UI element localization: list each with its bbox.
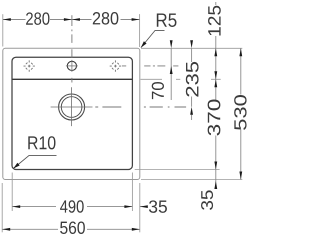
dim col A (70) x=171.2 xyxy=(170,48,172,100)
vertical tap centerline xyxy=(71,15,73,58)
horizontal tap centerline extension xyxy=(122,65,178,67)
dim col C (125/370/35) x=215.8 xyxy=(215,2,217,5)
label 530 rotated xyxy=(234,95,246,130)
bottom dim extension lines xyxy=(1,183,3,232)
bottom dim row 560 y=228.1 xyxy=(2,228,58,230)
bottom dim row 490/35 y=206.6 xyxy=(12,206,56,208)
drain inner circle xyxy=(61,97,82,118)
faucet hole xyxy=(67,61,76,70)
R5 leader xyxy=(141,30,165,47)
label 70 rotated xyxy=(152,82,164,99)
label 35 rotated xyxy=(201,190,213,209)
sink inner opening rect xyxy=(12,57,132,169)
sink outer rect 560x530 xyxy=(3,48,140,179)
dim col D (530) x=240.3 xyxy=(240,48,242,94)
label R10 xyxy=(28,136,55,149)
extension line: bowl bottom to right xyxy=(135,169,220,171)
extension line: sink bottom to right xyxy=(141,179,242,181)
label 35 bottom xyxy=(149,200,167,213)
label 235 rotated xyxy=(186,62,199,97)
star symbol right xyxy=(110,60,121,71)
label 370 rotated xyxy=(208,99,221,135)
star symbol left (optional tap hole) xyxy=(24,60,35,71)
dim col B (235) x=191.6 xyxy=(191,48,193,62)
bowl divider line xyxy=(12,78,132,80)
drain outer circle xyxy=(59,94,85,120)
R10 leader xyxy=(13,155,56,168)
label 280 right xyxy=(93,12,119,25)
top dim extension lines xyxy=(2,14,4,46)
extension line: divider to right xyxy=(141,78,163,80)
faucet crosshair xyxy=(66,65,78,67)
label R5 xyxy=(157,13,177,27)
drain centerline extension xyxy=(95,106,186,108)
label 280 left xyxy=(26,12,49,25)
top dimension line 280/280 xyxy=(3,19,140,21)
label 125 rotated xyxy=(208,6,221,36)
drain crosshair xyxy=(51,106,93,108)
label 560 xyxy=(60,221,85,234)
extension line: top edge to right xyxy=(141,47,242,49)
arrows top row xyxy=(3,18,140,21)
label 490 xyxy=(60,200,84,213)
